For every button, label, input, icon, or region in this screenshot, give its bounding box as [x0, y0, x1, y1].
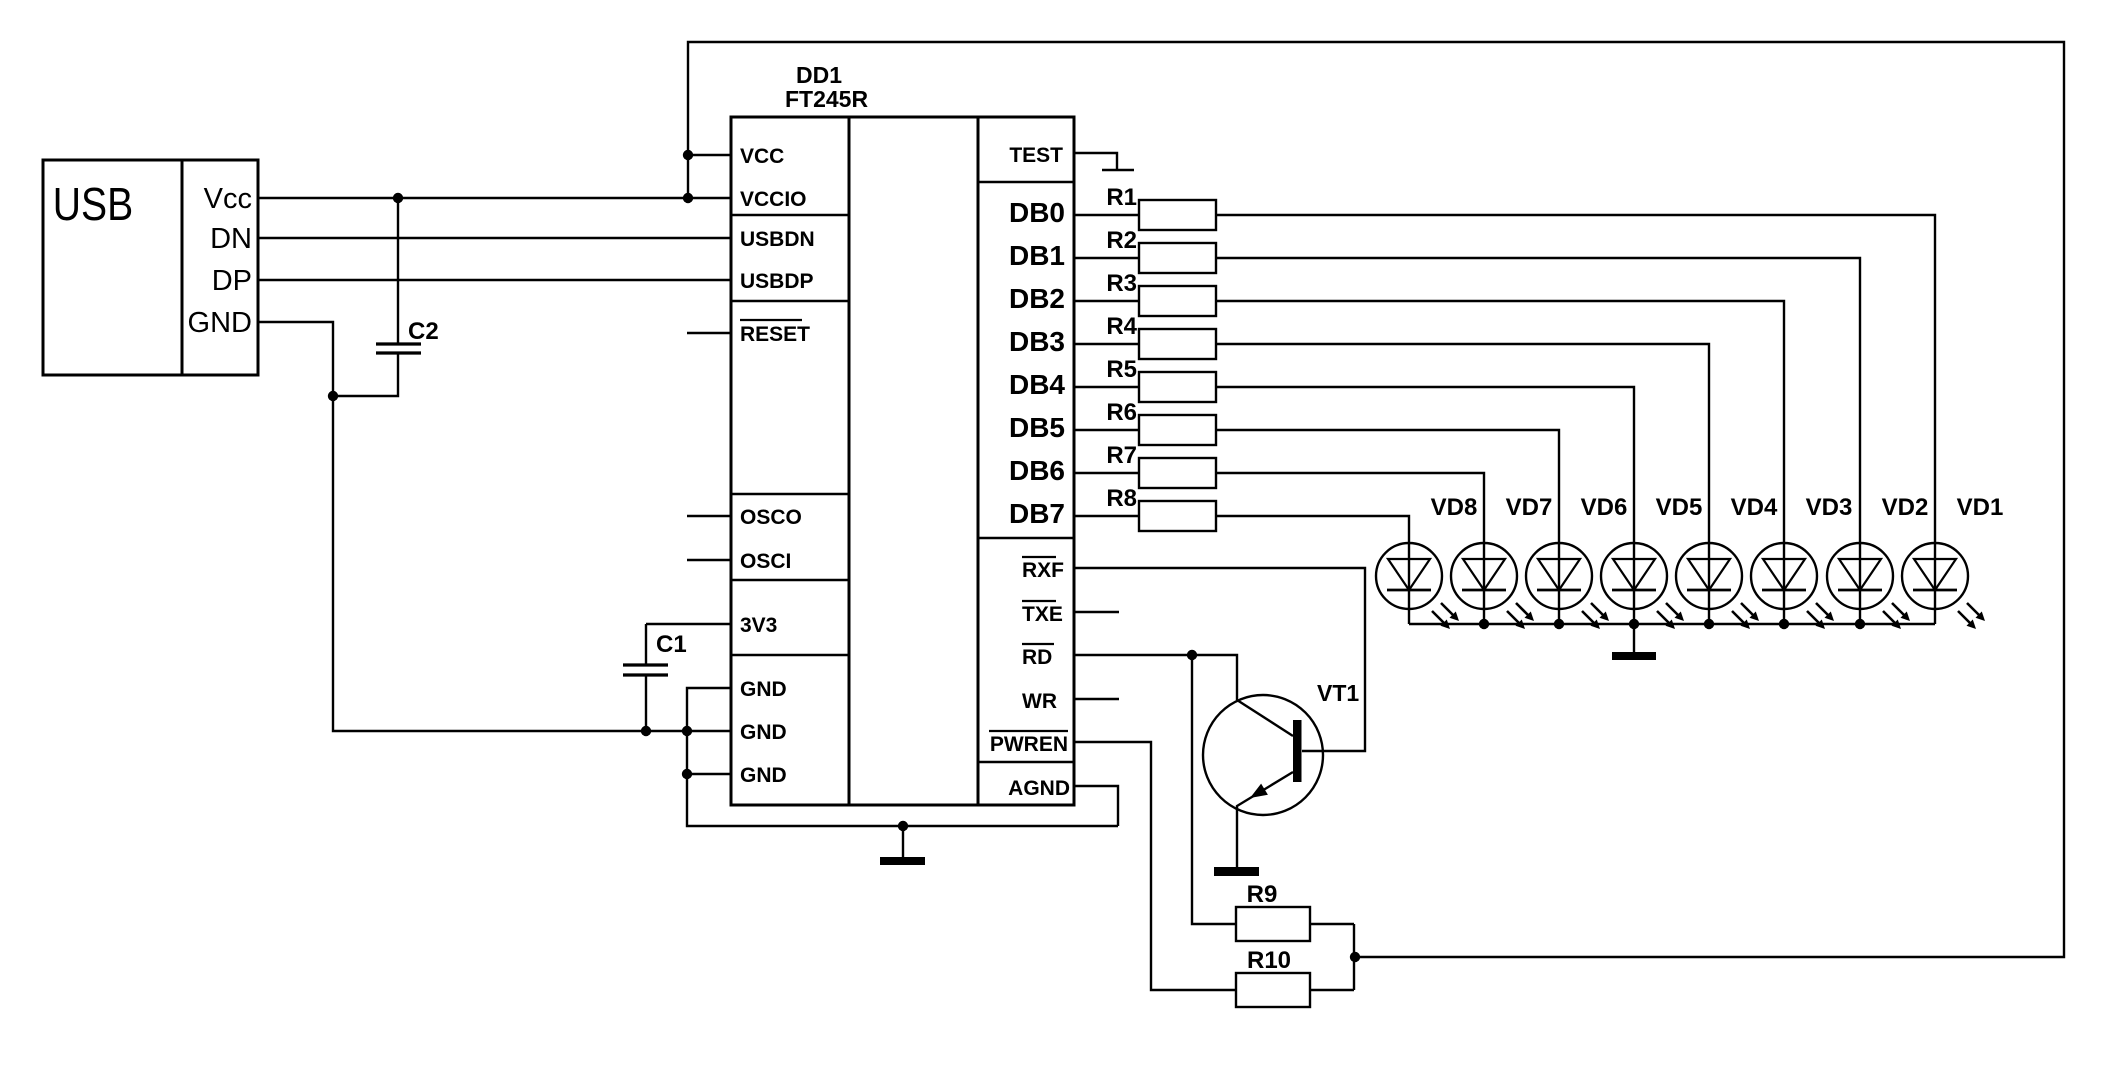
- resistor R9: [1236, 907, 1310, 941]
- node junction at 1634,624: [1629, 619, 1639, 629]
- svg-text:R10: R10: [1247, 947, 1291, 974]
- wire R3 to VD3 anode: [1216, 301, 1784, 543]
- svg-text:Vcc: Vcc: [204, 183, 252, 215]
- svg-text:DB4: DB4: [1009, 369, 1065, 400]
- pin RXF: [1022, 557, 1064, 582]
- svg-text:VD1: VD1: [1957, 494, 2004, 521]
- svg-text:USB: USB: [53, 179, 133, 231]
- svg-text:DD1: DD1: [796, 62, 842, 88]
- svg-text:DB0: DB0: [1009, 197, 1065, 228]
- svg-text:VD8: VD8: [1431, 494, 1478, 521]
- svg-text:PWREN: PWREN: [990, 733, 1068, 756]
- diode LED VD7: [1451, 543, 1534, 629]
- node junction at 1355,957: [1350, 952, 1360, 962]
- resistor R8: [1139, 501, 1216, 531]
- ground chip GND symbol: [880, 826, 925, 865]
- svg-text:VD5: VD5: [1656, 494, 1703, 521]
- svg-text:VD2: VD2: [1882, 494, 1929, 521]
- pin TXE: [1022, 601, 1063, 626]
- svg-text:USBDP: USBDP: [740, 270, 814, 293]
- pin RESET: [740, 320, 810, 346]
- wire DB7 to R8: [1074, 515, 1139, 517]
- svg-text:DB1: DB1: [1009, 240, 1065, 271]
- wire DB1 to R2: [1074, 257, 1139, 259]
- node junction at 1784,624: [1779, 619, 1789, 629]
- diode LED VD4: [1676, 543, 1759, 629]
- svg-text:R3: R3: [1106, 270, 1137, 297]
- svg-text:RESET: RESET: [740, 323, 810, 346]
- wire RESET stub: [687, 332, 731, 334]
- wire DP to USBDP: [258, 279, 731, 281]
- svg-text:C2: C2: [408, 318, 439, 345]
- node junction at 688,198: [683, 193, 693, 203]
- svg-text:R5: R5: [1106, 356, 1137, 383]
- svg-text:OSCO: OSCO: [740, 506, 802, 529]
- node junction at 1192,655: [1187, 650, 1197, 660]
- svg-text:OSCI: OSCI: [740, 550, 791, 573]
- svg-text:TEST: TEST: [1009, 144, 1063, 167]
- svg-text:GND: GND: [740, 721, 787, 744]
- USB connector X1: [43, 160, 258, 375]
- svg-text:VD3: VD3: [1806, 494, 1853, 521]
- diode LED VD8: [1376, 543, 1459, 629]
- node junction at 687,731: [682, 726, 692, 736]
- wire TEST stub: [1074, 153, 1117, 170]
- node junction at 398,198: [393, 193, 403, 203]
- wire DB5 to R6: [1074, 429, 1139, 431]
- wire R2 to VD2 anode: [1216, 258, 1860, 543]
- wire GND pin 3 stub: [687, 773, 731, 775]
- svg-text:R9: R9: [1247, 881, 1278, 908]
- svg-text:AGND: AGND: [1008, 777, 1070, 800]
- svg-text:R6: R6: [1106, 399, 1137, 426]
- svg-text:DB7: DB7: [1009, 498, 1065, 529]
- node junction at 1484,624: [1479, 619, 1489, 629]
- ground LED bus: [1612, 624, 1656, 660]
- svg-text:VT1: VT1: [1317, 680, 1359, 706]
- node junction at 646,731: [641, 726, 651, 736]
- svg-text:VD7: VD7: [1506, 494, 1553, 521]
- wire Vcc to VCCIO: [258, 197, 731, 199]
- wire RXF to VT1 base: [1074, 568, 1365, 751]
- wire R9 out: [1310, 923, 1354, 925]
- svg-text:WR: WR: [1022, 690, 1057, 713]
- svg-text:DB6: DB6: [1009, 455, 1065, 486]
- wire AGND down: [1074, 786, 1118, 826]
- resistor R5: [1139, 372, 1216, 402]
- svg-text:GND: GND: [188, 307, 252, 339]
- svg-text:DB2: DB2: [1009, 283, 1065, 314]
- resistor R1: [1139, 200, 1216, 230]
- svg-text:VD6: VD6: [1581, 494, 1628, 521]
- svg-text:RXF: RXF: [1022, 559, 1064, 582]
- node junction at 1860,624: [1855, 619, 1865, 629]
- wire VCC top loop net: [688, 42, 2064, 957]
- wire WR stub: [1074, 698, 1119, 700]
- svg-text:GND: GND: [740, 678, 787, 701]
- node junction at 688,155: [683, 150, 693, 160]
- svg-text:3V3: 3V3: [740, 614, 777, 637]
- resistor R6: [1139, 415, 1216, 445]
- wire RD junction to R9: [1192, 655, 1236, 924]
- svg-text:C1: C1: [656, 631, 687, 658]
- svg-text:R7: R7: [1106, 442, 1137, 469]
- diode LED VD1: [1902, 543, 1985, 629]
- wire OSCO stub: [687, 515, 731, 517]
- wire DB0 to R1: [1074, 214, 1139, 216]
- resistor R3: [1139, 286, 1216, 316]
- svg-text:TXE: TXE: [1022, 603, 1063, 626]
- node junction at 1709,624: [1704, 619, 1714, 629]
- node junction at 333,396: [328, 391, 338, 401]
- svg-text:VD4: VD4: [1731, 494, 1778, 521]
- diode LED VD2: [1827, 543, 1910, 629]
- wire R4 to VD4 anode: [1216, 344, 1709, 543]
- svg-text:R4: R4: [1106, 313, 1137, 340]
- svg-text:GND: GND: [740, 764, 787, 787]
- wire R10 out: [1310, 989, 1354, 991]
- ground TEST tick: [1102, 169, 1134, 172]
- wire DN to USBDN: [258, 237, 731, 239]
- wire R8 to VD8 anode: [1216, 516, 1409, 543]
- svg-text:VCCIO: VCCIO: [740, 188, 807, 211]
- diode LED VD6: [1526, 543, 1609, 629]
- ground VT1 emitter: [1214, 867, 1259, 876]
- svg-text:R8: R8: [1106, 485, 1137, 512]
- pin PWREN: [989, 731, 1068, 756]
- pin RD: [1022, 644, 1054, 669]
- svg-text:RD: RD: [1022, 646, 1052, 669]
- wire GND bus: [687, 688, 1118, 826]
- wire R5 to VD5 anode: [1216, 387, 1634, 543]
- svg-text:R1: R1: [1106, 184, 1137, 211]
- wire DB4 to R5: [1074, 386, 1139, 388]
- wire R6 to VD6 anode: [1216, 430, 1559, 543]
- resistor R7: [1139, 458, 1216, 488]
- svg-text:USBDN: USBDN: [740, 228, 815, 251]
- svg-text:R2: R2: [1106, 227, 1137, 254]
- resistor R2: [1139, 243, 1216, 273]
- capacitor C1: [623, 624, 731, 731]
- wire DB3 to R4: [1074, 343, 1139, 345]
- transistor VT1: [1203, 695, 1323, 867]
- svg-text:DN: DN: [210, 223, 252, 255]
- wire R7 to VD7 anode: [1216, 473, 1484, 543]
- wire OSCI stub: [687, 559, 731, 561]
- resistor R10: [1236, 973, 1310, 1007]
- diode LED VD5: [1601, 543, 1684, 629]
- svg-text:DB3: DB3: [1009, 326, 1065, 357]
- node junction at 903,826: [898, 821, 908, 831]
- wire PWREN to R10: [1074, 742, 1236, 990]
- node junction at 1559,624: [1554, 619, 1564, 629]
- node junction at 687,774: [682, 769, 692, 779]
- IC DD1 FT245R body: [731, 117, 1074, 805]
- svg-text:DB5: DB5: [1009, 412, 1065, 443]
- wire R9-R10 tie: [1353, 924, 1355, 990]
- svg-text:DP: DP: [212, 265, 252, 297]
- svg-text:FT245R: FT245R: [785, 86, 868, 112]
- wire VCC pin stub: [688, 154, 731, 156]
- wire TXE stub: [1074, 611, 1119, 613]
- wire LED cathode bus: [1409, 623, 1935, 625]
- resistor R4: [1139, 329, 1216, 359]
- wire GND net from USB: [258, 322, 731, 731]
- wire DB2 to R3: [1074, 300, 1139, 302]
- svg-text:VCC: VCC: [740, 145, 784, 168]
- wire DB6 to R7: [1074, 472, 1139, 474]
- wire RD to VT1 collector: [1074, 655, 1237, 700]
- diode LED VD3: [1751, 543, 1834, 629]
- wire R1 to VD1 anode: [1216, 215, 1935, 543]
- capacitor C2: [333, 198, 421, 396]
